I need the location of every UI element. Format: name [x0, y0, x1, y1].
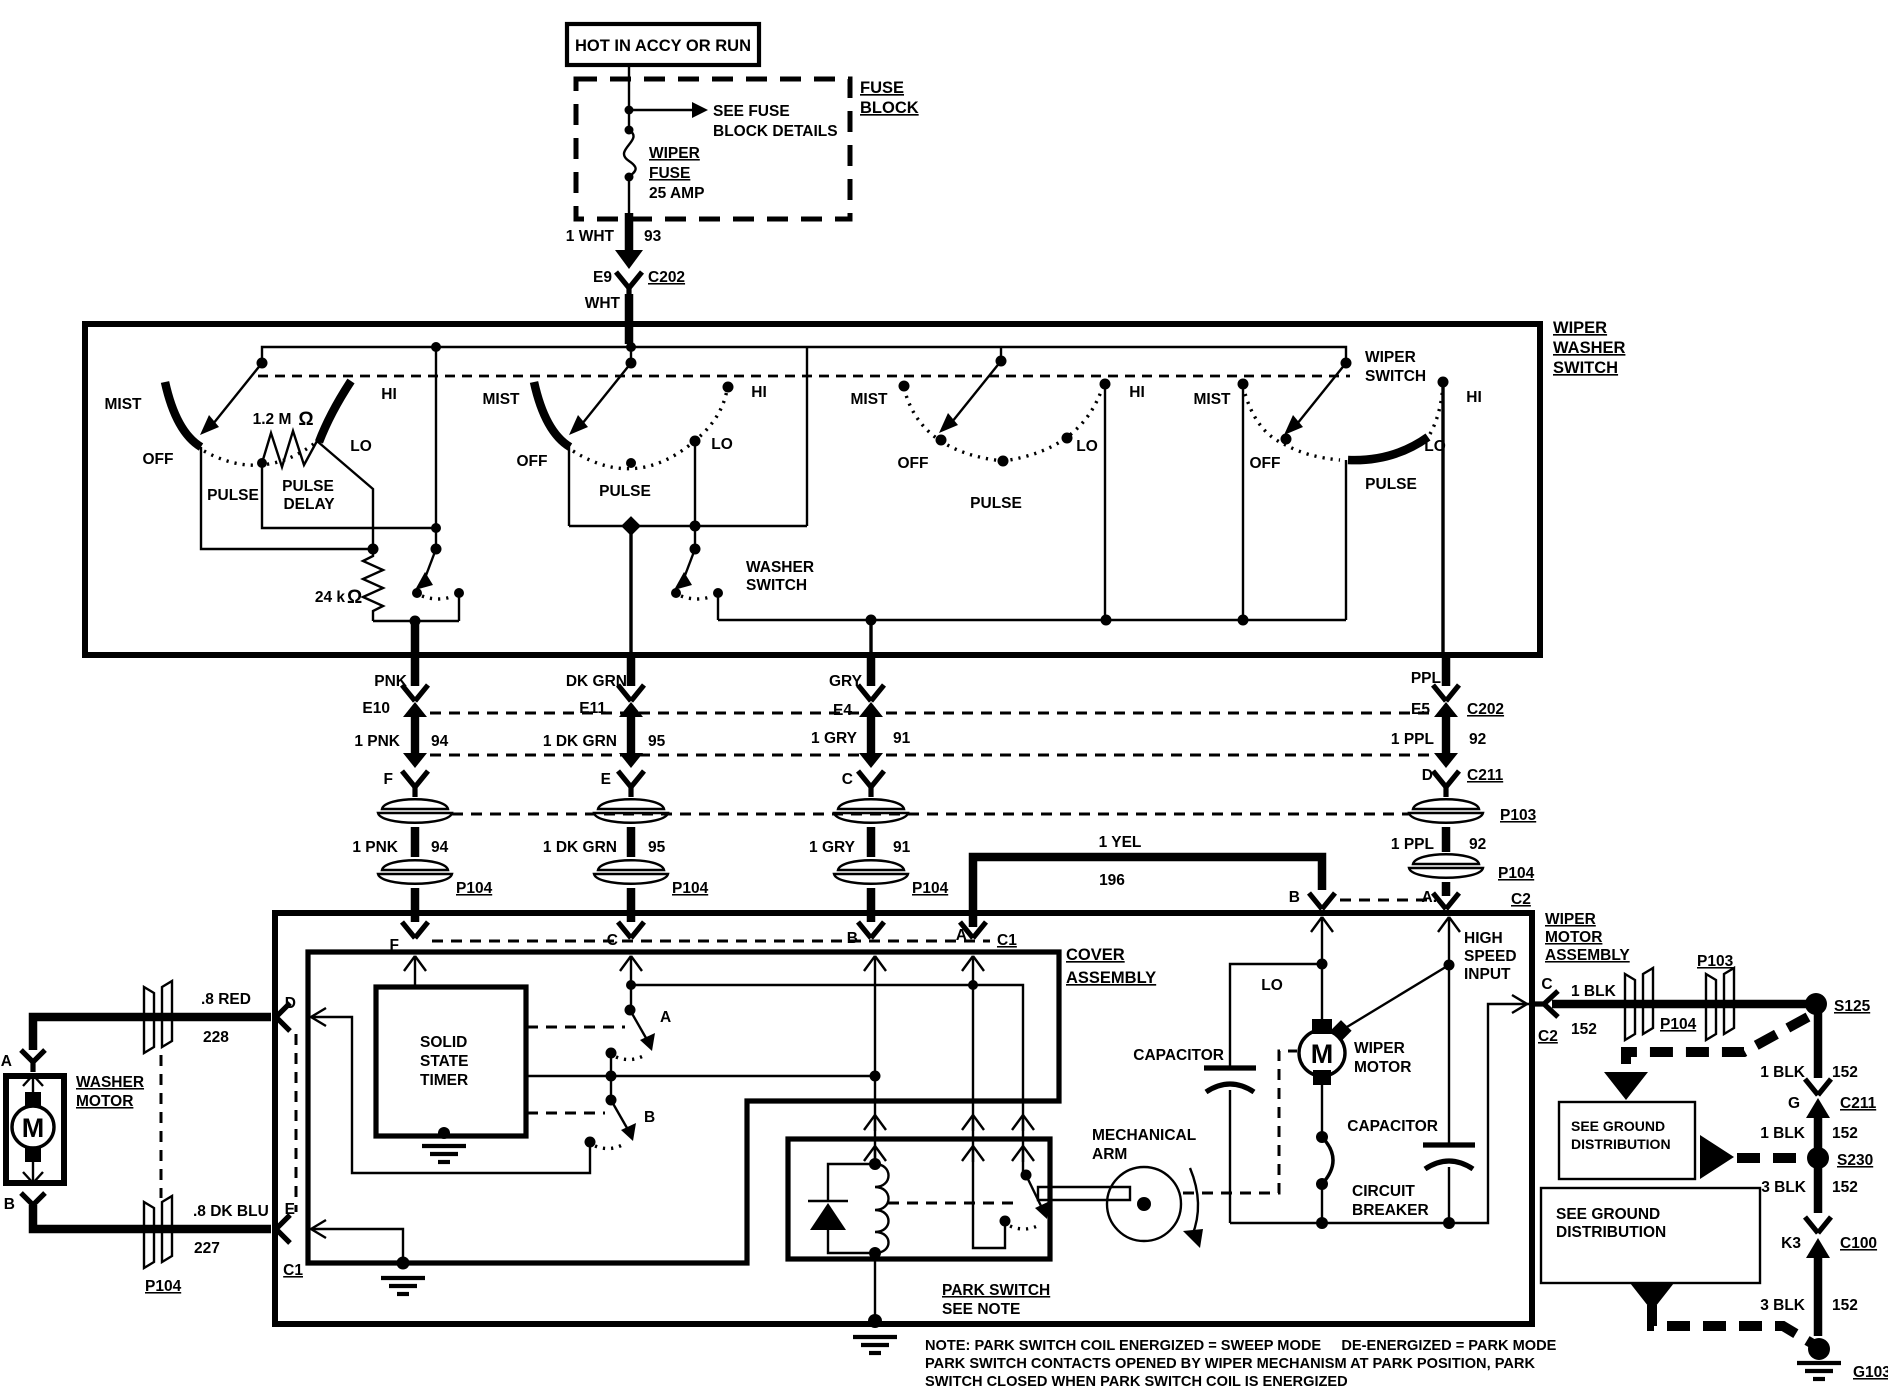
svg-text:MOTOR: MOTOR: [76, 1093, 133, 1110]
wire switch A contact down: [610, 1053, 612, 1076]
svg-text:1 PPL: 1 PPL: [1391, 731, 1434, 748]
connector P104: [834, 860, 908, 884]
wire to C1 pin F: [411, 888, 420, 922]
connector C100 pin K3: [1805, 1217, 1831, 1233]
connector inline washer top: [144, 981, 172, 1053]
svg-text:OFF: OFF: [143, 451, 174, 468]
svg-text:1 BLK: 1 BLK: [1571, 983, 1617, 1000]
motor M washer: [12, 1106, 54, 1148]
svg-text:3 BLK: 3 BLK: [1761, 1179, 1807, 1196]
svg-text:M: M: [22, 1113, 45, 1143]
box see ground distribution 1: [1559, 1102, 1695, 1179]
wire high speed riser: [1438, 917, 1460, 933]
svg-text:COVER: COVER: [1066, 946, 1125, 964]
node S230: [1807, 1147, 1829, 1169]
wire washer bus: [718, 619, 1346, 621]
svg-text:INPUT: INPUT: [1464, 966, 1511, 983]
dotted contact arc 1: [204, 443, 315, 465]
svg-text:WHT: WHT: [585, 295, 621, 312]
svg-text:LO: LO: [1261, 977, 1283, 994]
svg-text:P103: P103: [1697, 953, 1734, 970]
svg-text:SWITCH: SWITCH: [1365, 368, 1426, 385]
svg-text:94: 94: [431, 733, 449, 750]
svg-text:228: 228: [203, 1029, 229, 1046]
diode CR1: [828, 1164, 875, 1201]
svg-text:1 DK GRN: 1 DK GRN: [543, 839, 617, 856]
connector P103: [378, 799, 452, 823]
wire group2 bottom bus: [569, 525, 807, 527]
switch A relay contact: [625, 1005, 636, 1016]
svg-text:E5: E5: [1411, 701, 1430, 718]
svg-text:OFF: OFF: [898, 455, 929, 472]
svg-text:95: 95: [648, 839, 666, 856]
svg-text:Ω: Ω: [347, 587, 362, 608]
mechanical arm disc: [1107, 1167, 1181, 1241]
wire 1 PNK 94 arrow: [403, 702, 427, 768]
box see ground distribution 2: [1541, 1188, 1760, 1283]
svg-text:WASHER: WASHER: [746, 559, 814, 576]
wire 1 GRY 91 arrow: [859, 702, 883, 768]
connector P104: [1409, 854, 1483, 878]
svg-text:P104: P104: [1498, 865, 1535, 882]
wire F entry to timer: [404, 956, 426, 972]
wire washer motor leads: [23, 1075, 43, 1092]
wire right riser group2: [806, 347, 808, 526]
svg-text:C202: C202: [648, 269, 685, 286]
connector P103: [1409, 799, 1483, 823]
wire dashed park linkage: [888, 1202, 1016, 1205]
node G103 ground: [1808, 1338, 1830, 1360]
switch washer 2: [694, 526, 696, 549]
switch S2 wiper arm 2: [625, 324, 634, 344]
wire C entry: [620, 956, 642, 972]
wire dashed connector rows: [430, 712, 1437, 715]
wire E to ground: [311, 1220, 326, 1238]
switch S3 wiper arm 3: [1000, 347, 1002, 361]
svg-text:MIST: MIST: [1193, 391, 1231, 408]
svg-text:.8 RED: .8 RED: [201, 991, 251, 1008]
svg-text:A: A: [1, 1053, 12, 1070]
svg-text:ARM: ARM: [1092, 1146, 1127, 1163]
wire high speed diagonal: [1342, 965, 1449, 1030]
svg-text:D: D: [1422, 767, 1433, 784]
wire GRY stub: [867, 655, 876, 686]
svg-text:MIST: MIST: [482, 391, 520, 408]
svg-text:SWITCH: SWITCH: [746, 577, 807, 594]
svg-text:WIPER: WIPER: [649, 145, 700, 162]
wire LO contact 2 down: [694, 441, 696, 526]
svg-text:P104: P104: [456, 880, 493, 897]
svg-text:MOTOR: MOTOR: [1545, 929, 1602, 946]
svg-text:152: 152: [1832, 1179, 1858, 1196]
wire 1 WHT 93: [628, 177, 630, 213]
wire to C1 pin C: [627, 888, 636, 922]
svg-text:C211: C211: [1467, 767, 1504, 784]
svg-text:93: 93: [644, 228, 662, 245]
svg-text:227: 227: [194, 1240, 220, 1257]
svg-text:24 k: 24 k: [315, 589, 346, 606]
wire dashed box1 to S230: [1700, 1135, 1734, 1179]
svg-text:C1: C1: [997, 932, 1017, 949]
connector P103: [594, 799, 668, 823]
wire HI contact 4 PPL drop: [1441, 382, 1444, 652]
svg-text:C2: C2: [1538, 1028, 1558, 1045]
svg-text:3 BLK: 3 BLK: [1760, 1297, 1806, 1314]
ground cover assembly: [397, 1257, 410, 1270]
svg-text:HI: HI: [1466, 389, 1482, 406]
motor M wiper: [1312, 1019, 1332, 1034]
svg-text:WASHER: WASHER: [1553, 339, 1626, 357]
wire 1 BLK 152 to S125: [1552, 1000, 1816, 1009]
svg-text:CAPACITOR: CAPACITOR: [1133, 1047, 1224, 1064]
wire C riser crossings: [1012, 1115, 1034, 1131]
wire motor to circuit breaker: [1321, 1085, 1323, 1137]
svg-text:PARK SWITCH CONTACTS OPENED BY: PARK SWITCH CONTACTS OPENED BY WIPER MEC…: [925, 1356, 1535, 1372]
wire .8 DK BLU 227: [33, 1205, 271, 1229]
wire B pin riser: [864, 956, 886, 972]
wire switch B contact to D pin: [312, 1017, 590, 1173]
ground timer: [438, 1127, 450, 1139]
svg-text:A: A: [660, 1009, 671, 1026]
connector C202 pin E11: [618, 685, 644, 701]
svg-text:S230: S230: [1837, 1152, 1873, 1169]
connector C202 pin E9: [616, 272, 642, 288]
svg-text:BLOCK: BLOCK: [860, 99, 919, 117]
node junction bus-washer1: [431, 342, 441, 352]
switch B relay contact: [610, 1076, 612, 1100]
svg-text:MIST: MIST: [850, 391, 888, 408]
svg-text:E11: E11: [579, 700, 606, 717]
svg-text:SEE FUSE: SEE FUSE: [713, 103, 790, 120]
svg-text:PULSE: PULSE: [207, 487, 259, 504]
svg-text:WASHER: WASHER: [76, 1074, 144, 1091]
svg-text:152: 152: [1832, 1064, 1858, 1081]
mechanical arm link bar: [1038, 1187, 1130, 1200]
svg-text:1.2 M: 1.2 M: [253, 411, 292, 428]
svg-text:DISTRIBUTION: DISTRIBUTION: [1556, 1224, 1666, 1241]
wire S125 down to C211: [1814, 1004, 1823, 1078]
svg-text:P104: P104: [145, 1278, 182, 1295]
wire LO branch: [1230, 964, 1322, 1066]
box wiper motor assembly: [275, 913, 1532, 1324]
contact arc HI-LO 1: [319, 381, 351, 442]
svg-text:BLOCK DETAILS: BLOCK DETAILS: [713, 123, 838, 140]
svg-text:SWITCH CLOSED WHEN PARK SWITCH: SWITCH CLOSED WHEN PARK SWITCH COIL IS E…: [925, 1374, 1348, 1390]
connector P104: [594, 860, 668, 884]
dotted contact arc 3: [904, 386, 1103, 461]
wire .8 RED 228: [33, 1017, 271, 1050]
wire dashed timer to switch A: [527, 1026, 625, 1029]
wire washer sw1 vertical: [435, 347, 437, 549]
dotted contact arc 2: [573, 390, 727, 469]
wire 1 DK GRN 95: [627, 827, 636, 857]
svg-text:WIPER: WIPER: [1545, 911, 1596, 928]
svg-text:1 DK GRN: 1 DK GRN: [543, 733, 617, 750]
svg-text:C: C: [842, 771, 853, 788]
fuse F1 WIPER FUSE 25 AMP: [625, 126, 634, 135]
svg-text:LO: LO: [1076, 438, 1098, 455]
connector C211 pin G: [1805, 1079, 1831, 1095]
wire GRY drop: [869, 620, 872, 652]
connector C202 pin E4: [858, 685, 884, 701]
switch park contacts: [1021, 1170, 1032, 1181]
svg-text:ASSEMBLY: ASSEMBLY: [1545, 947, 1630, 964]
svg-text:1 PPL: 1 PPL: [1391, 836, 1434, 853]
svg-text:94: 94: [431, 839, 449, 856]
svg-text:152: 152: [1832, 1297, 1858, 1314]
svg-text:C2: C2: [1511, 891, 1531, 908]
svg-text:E4: E4: [833, 702, 852, 719]
switch washer 1: [431, 544, 442, 555]
switch S4 wiper arm 4: [1341, 358, 1352, 369]
svg-text:OFF: OFF: [517, 453, 548, 470]
connector inline washer bottom: [144, 1196, 172, 1268]
svg-text:TIMER: TIMER: [420, 1072, 468, 1089]
svg-text:Ω: Ω: [298, 409, 313, 430]
connector C2 pin B: [1309, 893, 1335, 909]
circuit breaker CB1: [1316, 1131, 1328, 1143]
svg-text:1 GRY: 1 GRY: [811, 730, 858, 747]
wire PULSE contact 1 across: [262, 463, 436, 528]
svg-text:1 BLK: 1 BLK: [1760, 1064, 1806, 1081]
svg-text:1 YEL: 1 YEL: [1099, 834, 1142, 851]
svg-text:1 BLK: 1 BLK: [1760, 1125, 1806, 1142]
svg-text:A: A: [956, 927, 967, 944]
wire PNK stub: [411, 655, 420, 686]
connector C1 pin A: [960, 922, 986, 938]
svg-text:C100: C100: [1840, 1235, 1877, 1252]
wire 1 PNK 94: [411, 827, 420, 857]
wire feed bus: [262, 347, 1346, 363]
node PULSE contact 1: [257, 458, 267, 468]
node S125: [1805, 993, 1827, 1015]
wire see fuse block details arrow: [629, 109, 694, 111]
connector C2 pin C exit: [1512, 995, 1527, 1013]
svg-text:1 PNK: 1 PNK: [352, 839, 398, 856]
svg-text:E9: E9: [593, 269, 612, 286]
fuse block dashed box: [576, 79, 850, 219]
wire to C1 pin B: [867, 888, 876, 922]
svg-text:OFF: OFF: [1250, 455, 1281, 472]
dotted contact arc 4: [1243, 386, 1340, 460]
svg-text:SPEED: SPEED: [1464, 948, 1517, 965]
svg-text:92: 92: [1469, 731, 1486, 748]
wire DK GRN stub: [627, 655, 636, 686]
connector C202 pin E10: [402, 685, 428, 701]
wire to C2 pin A: [1442, 882, 1451, 896]
svg-text:STATE: STATE: [420, 1053, 469, 1070]
wire HI contact 3 down: [1104, 384, 1106, 620]
svg-text:ASSEMBLY: ASSEMBLY: [1066, 969, 1156, 987]
svg-text:C1: C1: [283, 1262, 303, 1279]
svg-text:MOTOR: MOTOR: [1354, 1059, 1411, 1076]
connector inline P103 right: [1706, 968, 1734, 1040]
svg-text:E10: E10: [362, 700, 390, 717]
contact arc MIST 1: [165, 382, 201, 447]
resistor 24 k ohm: [363, 549, 383, 621]
svg-text:FUSE: FUSE: [860, 79, 904, 97]
wire OFF contact 2 down: [568, 447, 570, 526]
wire A pin riser: [962, 956, 984, 972]
svg-text:B: B: [644, 1109, 655, 1126]
svg-text:B: B: [1289, 889, 1300, 906]
svg-text:WIPER: WIPER: [1365, 349, 1416, 366]
wire PNK junction: [373, 620, 459, 622]
wire dashed P104 pair: [160, 1055, 163, 1198]
svg-text:C: C: [1541, 976, 1552, 993]
contact arc MIST 2: [534, 382, 570, 447]
svg-text:P104: P104: [1660, 1016, 1697, 1033]
contact arc PULSE-LO 4: [1348, 437, 1428, 460]
wire 1 GRY 91: [867, 827, 876, 857]
wire PPL stub: [1442, 655, 1451, 686]
wire 1 PPL 92 arrow: [1434, 702, 1458, 768]
switch S1 wiper arm 1: [257, 358, 268, 369]
svg-text:152: 152: [1571, 1021, 1597, 1038]
box solid state timer U1: [376, 987, 526, 1136]
svg-text:B: B: [4, 1196, 15, 1213]
svg-text:G103: G103: [1853, 1364, 1888, 1381]
svg-text:LO: LO: [711, 436, 733, 453]
wire dashed timer to switch B: [527, 1112, 605, 1115]
svg-text:B: B: [847, 930, 858, 947]
svg-text:P103: P103: [1500, 807, 1537, 824]
wire 1 YEL 196: [973, 857, 1322, 927]
svg-text:92: 92: [1469, 836, 1486, 853]
svg-text:PULSE: PULSE: [1365, 476, 1417, 493]
svg-text:SOLID: SOLID: [420, 1034, 467, 1051]
rotation arrow: [1190, 1168, 1198, 1236]
wire DK GRN drop: [629, 526, 632, 652]
wire timer to B pin: [527, 1075, 875, 1077]
svg-text:91: 91: [893, 839, 911, 856]
svg-text:S125: S125: [1834, 998, 1871, 1015]
svg-text:1 GRY: 1 GRY: [809, 839, 856, 856]
svg-text:PULSE: PULSE: [599, 483, 651, 500]
svg-text:F: F: [384, 771, 393, 788]
wire LO contact 1 down: [317, 441, 373, 549]
wire S230 down to C100: [1814, 1158, 1823, 1213]
svg-text:91: 91: [893, 730, 911, 747]
wire dashed arm to motor: [1183, 1051, 1297, 1193]
svg-text:C211: C211: [1840, 1095, 1877, 1112]
svg-text:NOTE: PARK SWITCH COIL ENERGI: NOTE: PARK SWITCH COIL ENERGIZED = SWEEP…: [925, 1338, 1557, 1354]
svg-text:CAPACITOR: CAPACITOR: [1347, 1118, 1438, 1135]
wire mechanical link dashed: [258, 375, 1350, 378]
svg-text:P104: P104: [912, 880, 949, 897]
svg-text:G: G: [1788, 1095, 1800, 1112]
box cover assembly: [308, 952, 1059, 1263]
connector C202 pin E5: [1433, 685, 1459, 701]
wire 1 PPL 92: [1442, 827, 1451, 852]
node junction bus-WHT: [626, 342, 636, 352]
svg-text:MIST: MIST: [104, 396, 142, 413]
wire C to high speed riser: [631, 985, 1023, 1139]
wire dashed C1 D-E: [295, 1034, 298, 1212]
connector P104: [378, 860, 452, 884]
wire bottom bus: [1230, 1004, 1529, 1223]
box HOT IN ACCY OR RUN: [567, 24, 759, 65]
svg-text:SEE GROUND: SEE GROUND: [1556, 1206, 1660, 1223]
svg-text:PARK SWITCH: PARK SWITCH: [942, 1282, 1050, 1299]
svg-text:SEE GROUND: SEE GROUND: [1571, 1118, 1665, 1134]
svg-text:HIGH: HIGH: [1464, 930, 1503, 947]
svg-text:1 PNK: 1 PNK: [354, 733, 400, 750]
svg-text:P104: P104: [672, 880, 709, 897]
svg-text:WIPER: WIPER: [1354, 1040, 1405, 1057]
connector P103: [834, 799, 908, 823]
svg-text:HOT IN ACCY OR RUN: HOT IN ACCY OR RUN: [575, 37, 751, 55]
inductor park coil L1: [869, 1158, 881, 1170]
svg-text:C: C: [607, 932, 618, 949]
svg-text:196: 196: [1099, 872, 1125, 889]
box washer motor: [6, 1076, 64, 1183]
svg-text:PPL: PPL: [1411, 670, 1441, 687]
wire from HOT box: [628, 65, 630, 128]
svg-text:DISTRIBUTION: DISTRIBUTION: [1571, 1136, 1671, 1152]
wire B riser to motor: [1311, 917, 1333, 933]
svg-text:25 AMP: 25 AMP: [649, 185, 704, 202]
svg-text:CIRCUIT: CIRCUIT: [1352, 1183, 1415, 1200]
svg-text:FUSE: FUSE: [649, 165, 690, 182]
wire PULSE contact 4 down: [1345, 460, 1347, 620]
svg-text:HI: HI: [1129, 384, 1145, 401]
svg-text:HI: HI: [381, 386, 397, 403]
svg-text:.8 DK BLU: .8 DK BLU: [193, 1203, 269, 1220]
connector inline P104 right: [1625, 968, 1653, 1040]
svg-text:C202: C202: [1467, 701, 1504, 718]
svg-text:1 WHT: 1 WHT: [566, 228, 615, 245]
svg-text:SEE NOTE: SEE NOTE: [942, 1301, 1020, 1318]
wire park coil to ground: [874, 1253, 876, 1321]
wire dashed box2 to G103: [1630, 1283, 1674, 1311]
svg-text:MECHANICAL: MECHANICAL: [1092, 1127, 1196, 1144]
resistor 1.2 M ohm: [262, 431, 317, 467]
svg-text:E: E: [601, 771, 611, 788]
svg-text:M: M: [1311, 1039, 1334, 1069]
box park switch: [788, 1139, 1050, 1259]
svg-text:95: 95: [648, 733, 666, 750]
wire OFF contact 1 to 24k: [201, 447, 372, 549]
wire A to park contact: [973, 1203, 1005, 1248]
svg-text:BREAKER: BREAKER: [1352, 1202, 1429, 1219]
svg-text:SWITCH: SWITCH: [1553, 359, 1618, 377]
svg-text:K3: K3: [1781, 1235, 1801, 1252]
wire 1 DK GRN 95 arrow: [619, 702, 643, 768]
svg-text:PULSE: PULSE: [970, 495, 1022, 512]
svg-text:152: 152: [1832, 1125, 1858, 1142]
wire dashed S125 to ground triangle: [1626, 1017, 1808, 1072]
node junction: [625, 106, 634, 115]
svg-text:HI: HI: [751, 384, 767, 401]
svg-text:LO: LO: [350, 438, 372, 455]
svg-text:DELAY: DELAY: [283, 496, 335, 513]
svg-text:PULSE: PULSE: [282, 478, 334, 495]
wire MIST contact 4 down: [1242, 384, 1244, 620]
svg-text:WIPER: WIPER: [1553, 319, 1607, 337]
box wiper washer switch: [85, 324, 1540, 655]
